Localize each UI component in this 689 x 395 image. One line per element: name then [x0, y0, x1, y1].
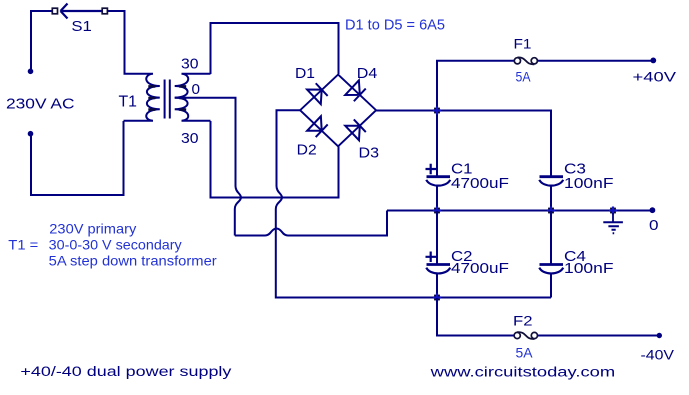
svg-text:30: 30: [181, 56, 199, 73]
svg-text:5A step down transformer: 5A step down transformer: [49, 252, 217, 268]
node: junction at bridge output: [434, 108, 440, 114]
svg-text:D2: D2: [297, 142, 317, 159]
capacitor C3: [540, 175, 564, 178]
switch S1 blade arrow: [61, 4, 103, 19]
node: junction C1 on 0 rail: [434, 208, 440, 214]
transformer winding ticks: [148, 86, 186, 109]
switch S1 right terminal: [102, 8, 107, 14]
svg-text:30: 30: [181, 130, 199, 147]
svg-text:D3: D3: [359, 144, 380, 161]
wire: -40V rail right of F2: [538, 335, 658, 337]
wire: secondary bottom 30 down: [210, 121, 212, 198]
svg-text:0: 0: [649, 217, 659, 234]
svg-text:F1: F1: [514, 35, 532, 51]
svg-text:5A: 5A: [516, 345, 534, 361]
svg-text:D4: D4: [357, 65, 378, 82]
wire: 0 rail to C4 top: [550, 211, 552, 264]
node: junction C3 on 0 rail: [548, 208, 554, 214]
svg-text:S1: S1: [71, 18, 92, 35]
transformer core lines: [165, 80, 170, 119]
svg-text:4700uF: 4700uF: [451, 260, 509, 277]
svg-text:230V AC: 230V AC: [6, 96, 75, 113]
wire: switch to transformer primary top: [107, 11, 125, 74]
wire: +40V rail right of F1: [538, 60, 653, 62]
svg-text:230V primary: 230V primary: [49, 221, 136, 237]
svg-text:5A: 5A: [516, 69, 532, 85]
node: junction bottom rail: [434, 295, 440, 301]
svg-text:T1 =: T1 =: [8, 236, 38, 252]
wire: 230V AC left vertical top: [30, 11, 32, 70]
wire: 0 rail: [387, 210, 651, 212]
capacitor C2: [427, 263, 451, 266]
diode D1: [307, 82, 328, 104]
wire: main positive vertical: [436, 61, 438, 176]
wire: down to F2 rail: [437, 298, 514, 336]
transformer T1 secondary winding: [175, 74, 211, 121]
capacitor C4: [540, 263, 564, 266]
wire: bridge right vertex to C3: [376, 111, 551, 177]
capacitor C1: [427, 175, 451, 178]
node: junction ground on 0 rail: [610, 208, 616, 214]
svg-text:D1: D1: [295, 65, 315, 82]
wire: primary loop bottom: [30, 194, 124, 196]
node: 230V AC top terminal dot: [28, 69, 34, 75]
bridge rectifier diamond: [300, 75, 376, 147]
switch S1 left terminal: [52, 8, 57, 14]
diode D2: [307, 116, 328, 138]
wire: 230V AC left vertical bottom: [30, 135, 32, 196]
wire: top wire from source to switch: [30, 10, 52, 12]
fuse F2: [514, 332, 520, 338]
wire: center tap 0 lead with jog over bottom wire: [175, 98, 241, 236]
transformer T1 primary winding: [124, 74, 160, 121]
diode D3: [345, 118, 366, 140]
wire: bottom horizontal to bridge bottom vertex: [210, 147, 339, 198]
wire: 0 rail to C2 top: [436, 211, 438, 264]
fuse F1: [514, 58, 520, 64]
svg-text:4700uF: 4700uF: [451, 175, 509, 192]
wire: secondary top 30 to bridge top: [211, 23, 339, 74]
node: 230V AC bottom terminal dot: [28, 131, 34, 137]
ground symbol: [612, 213, 614, 222]
svg-text:100nF: 100nF: [564, 260, 614, 277]
svg-text:+40/-40 dual power supply: +40/-40 dual power supply: [20, 364, 231, 379]
svg-text:+40V: +40V: [633, 68, 677, 84]
svg-text:30-0-30 V secondary: 30-0-30 V secondary: [49, 236, 182, 252]
node: 0 terminal dot: [650, 207, 656, 213]
svg-text:D1 to D5 = 6A5: D1 to D5 = 6A5: [345, 17, 445, 34]
wire: primary loop right vertical lower: [123, 121, 125, 196]
svg-text:F2: F2: [513, 312, 533, 328]
node: +40V terminal dot: [650, 58, 656, 64]
diode D4: [345, 80, 366, 102]
svg-text:-40V: -40V: [641, 346, 675, 362]
svg-text:100nF: 100nF: [564, 175, 614, 192]
svg-text:T1: T1: [119, 94, 138, 111]
wire: center tap horizontal with hop to 0 rail: [235, 211, 387, 236]
svg-text:0: 0: [192, 81, 201, 98]
node: -40V terminal dot: [657, 333, 662, 338]
svg-text:www.circuitstoday.com: www.circuitstoday.com: [429, 365, 615, 380]
wire: bridge left vertex down with jog, to bottom rail: [276, 110, 551, 297]
wire: +40V rail left of F1: [436, 60, 514, 62]
